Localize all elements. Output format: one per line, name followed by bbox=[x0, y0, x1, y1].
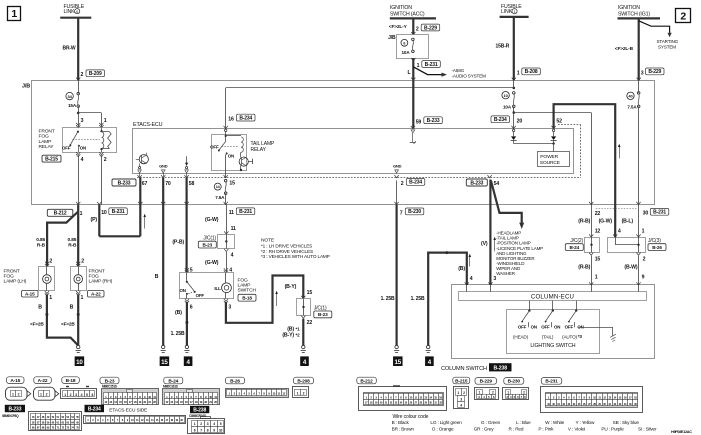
svg-text:R-B: R-B bbox=[37, 242, 46, 248]
svg-text:LINK: LINK bbox=[501, 9, 513, 15]
svg-text:08M60CP8Q: 08M60CP8Q bbox=[2, 414, 19, 418]
svg-text:J/B: J/B bbox=[22, 83, 30, 89]
svg-text:2: 2 bbox=[81, 72, 84, 78]
svg-text:B-209: B-209 bbox=[89, 71, 102, 77]
svg-text:15: 15 bbox=[395, 359, 402, 366]
svg-text:22: 22 bbox=[307, 320, 313, 326]
svg-text:2: 2 bbox=[643, 256, 646, 262]
svg-text:<F>2B: <F>2B bbox=[61, 321, 75, 326]
svg-text:IGNITION: IGNITION bbox=[390, 5, 412, 11]
svg-text:MB0C151S: MB0C151S bbox=[102, 385, 118, 389]
svg-text:ON: ON bbox=[180, 288, 186, 293]
svg-text:POWER: POWER bbox=[540, 154, 558, 160]
svg-text:A-22: A-22 bbox=[91, 291, 101, 296]
svg-text:B-238: B-238 bbox=[494, 366, 508, 372]
svg-text:*1: *1 bbox=[296, 326, 301, 331]
svg-text:20: 20 bbox=[517, 118, 523, 124]
svg-text:(P-B): (P-B) bbox=[172, 240, 184, 246]
svg-text:(V): (V) bbox=[481, 241, 488, 247]
svg-text:15: 15 bbox=[307, 290, 313, 296]
svg-text:B-229: B-229 bbox=[480, 379, 493, 385]
svg-text:PU : Purple: PU : Purple bbox=[601, 427, 624, 432]
svg-text:6: 6 bbox=[403, 41, 405, 45]
svg-text:B-23: B-23 bbox=[203, 242, 213, 247]
svg-text:(AUTO): (AUTO) bbox=[562, 334, 577, 339]
svg-text:FOG: FOG bbox=[39, 134, 49, 140]
svg-text:*3: *3 bbox=[578, 334, 583, 339]
svg-text:54: 54 bbox=[494, 181, 500, 187]
svg-text:1: 1 bbox=[11, 8, 17, 20]
svg-text:LIGHTING SWITCH: LIGHTING SWITCH bbox=[530, 343, 575, 349]
svg-text:2: 2 bbox=[104, 157, 107, 163]
svg-text:*2: *2 bbox=[296, 332, 301, 337]
svg-text:ETACS-ECU SIDE: ETACS-ECU SIDE bbox=[109, 408, 147, 414]
svg-text:LAMP (LH): LAMP (LH) bbox=[4, 279, 27, 285]
svg-text:7.5A: 7.5A bbox=[215, 195, 225, 200]
svg-text:SYSTEM: SYSTEM bbox=[658, 44, 676, 49]
svg-text:A-15: A-15 bbox=[25, 291, 35, 296]
svg-text:(G-W): (G-W) bbox=[599, 218, 613, 224]
svg-text:0.85: 0.85 bbox=[68, 237, 77, 243]
svg-text:LAMP: LAMP bbox=[39, 139, 52, 145]
svg-text:B-231: B-231 bbox=[425, 62, 438, 68]
svg-text:MB0C161S: MB0C161S bbox=[163, 385, 179, 389]
svg-text:B-208: B-208 bbox=[525, 69, 538, 75]
svg-text:10: 10 bbox=[101, 210, 107, 216]
svg-text:J/C(1): J/C(1) bbox=[314, 305, 327, 311]
svg-text:GR : Grey: GR : Grey bbox=[474, 427, 495, 432]
svg-text:OFF: OFF bbox=[518, 324, 527, 329]
svg-text:ON: ON bbox=[531, 324, 537, 329]
svg-text:58: 58 bbox=[189, 181, 195, 187]
svg-text:B-212: B-212 bbox=[54, 211, 67, 217]
svg-text:(B-L): (B-L) bbox=[622, 218, 634, 224]
svg-text:L : Blue: L : Blue bbox=[516, 420, 531, 425]
svg-text:B-233: B-233 bbox=[8, 406, 21, 412]
svg-text:B-26: B-26 bbox=[230, 378, 240, 384]
svg-text:W : White: W : White bbox=[545, 420, 565, 425]
svg-text:OFF: OFF bbox=[62, 145, 71, 150]
svg-text:2: 2 bbox=[81, 258, 84, 264]
svg-text:1: 1 bbox=[81, 295, 84, 301]
svg-text:ON: ON bbox=[80, 146, 86, 151]
svg-text:10: 10 bbox=[76, 359, 83, 366]
svg-text:1: 1 bbox=[104, 118, 107, 124]
svg-text:7: 7 bbox=[400, 210, 403, 216]
svg-text:15: 15 bbox=[229, 181, 235, 187]
svg-text:1: 1 bbox=[49, 295, 52, 301]
svg-text:(B-W): (B-W) bbox=[624, 264, 637, 270]
svg-text:IGNITION: IGNITION bbox=[618, 5, 640, 11]
svg-text:22: 22 bbox=[595, 211, 601, 217]
svg-text:B-23: B-23 bbox=[318, 312, 328, 317]
svg-text:11: 11 bbox=[231, 226, 236, 232]
svg-text:B-231: B-231 bbox=[112, 209, 125, 215]
svg-text:FRONT: FRONT bbox=[89, 268, 105, 274]
svg-text:B : Black: B : Black bbox=[392, 420, 410, 425]
svg-text:15: 15 bbox=[595, 256, 601, 262]
svg-text:RELAY: RELAY bbox=[251, 147, 267, 153]
svg-text:4: 4 bbox=[618, 228, 621, 234]
svg-text:1. 25B: 1. 25B bbox=[171, 331, 185, 337]
svg-text:B-234: B-234 bbox=[88, 406, 101, 412]
svg-text:*1 : LH DRIVE VEHICLES: *1 : LH DRIVE VEHICLES bbox=[261, 244, 312, 249]
svg-text:BR-W: BR-W bbox=[63, 46, 76, 52]
svg-text:B-24: B-24 bbox=[570, 245, 580, 250]
svg-text:ON: ON bbox=[554, 324, 560, 329]
svg-text:59: 59 bbox=[416, 119, 422, 125]
svg-text:O : Orange: O : Orange bbox=[432, 427, 454, 432]
svg-text:3: 3 bbox=[228, 304, 231, 310]
svg-text:*3 : VEHICLES WITH AUTO LAMP: *3 : VEHICLES WITH AUTO LAMP bbox=[261, 254, 330, 259]
svg-text:52: 52 bbox=[556, 118, 562, 124]
svg-text:LG : Light green: LG : Light green bbox=[430, 420, 462, 425]
svg-text:A-15: A-15 bbox=[10, 378, 20, 384]
svg-text:3: 3 bbox=[460, 398, 462, 402]
svg-text:ON: ON bbox=[228, 153, 234, 158]
svg-text:B-231: B-231 bbox=[653, 210, 666, 216]
svg-text:<F>2L-B: <F>2L-B bbox=[615, 46, 634, 52]
svg-text:B-24: B-24 bbox=[168, 378, 178, 384]
svg-text:SWITCH (ACC): SWITCH (ACC) bbox=[390, 11, 425, 17]
svg-text:B-238: B-238 bbox=[193, 407, 206, 413]
svg-text:P : Pink: P : Pink bbox=[538, 427, 554, 432]
svg-text:FRONT: FRONT bbox=[4, 268, 20, 274]
svg-text:2: 2 bbox=[680, 11, 686, 23]
svg-text:3: 3 bbox=[493, 276, 496, 282]
svg-text:10A: 10A bbox=[402, 50, 411, 55]
svg-text:4: 4 bbox=[81, 157, 84, 163]
svg-text:LAMP: LAMP bbox=[238, 283, 251, 289]
svg-text:15B-R: 15B-R bbox=[496, 43, 510, 49]
svg-text:-AUDIO SYSTEM: -AUDIO SYSTEM bbox=[452, 73, 487, 78]
svg-text:B-231: B-231 bbox=[239, 209, 252, 215]
svg-text:6: 6 bbox=[76, 10, 78, 14]
svg-text:LAMP (RH): LAMP (RH) bbox=[89, 279, 113, 285]
svg-text:FRONT: FRONT bbox=[39, 128, 55, 134]
svg-text:(G-W): (G-W) bbox=[205, 217, 219, 223]
svg-text:OFF: OFF bbox=[541, 324, 550, 329]
svg-text:BR : Brown: BR : Brown bbox=[392, 427, 415, 432]
svg-text:B-23: B-23 bbox=[105, 378, 115, 384]
svg-text:1: 1 bbox=[80, 211, 83, 217]
svg-text:(B-Y): (B-Y) bbox=[282, 333, 294, 339]
svg-text:1: 1 bbox=[514, 10, 516, 14]
svg-text:GND: GND bbox=[159, 163, 168, 168]
svg-text:B-233: B-233 bbox=[427, 118, 440, 124]
svg-text:FOG: FOG bbox=[89, 274, 99, 280]
svg-text:0.85: 0.85 bbox=[36, 237, 45, 243]
svg-text:NOTE: NOTE bbox=[261, 237, 275, 243]
svg-text:2: 2 bbox=[401, 181, 404, 187]
svg-text:B-230: B-230 bbox=[508, 379, 521, 385]
svg-text:1: 1 bbox=[642, 228, 645, 234]
svg-text:B: B bbox=[70, 305, 74, 311]
svg-text:FOG: FOG bbox=[238, 277, 248, 283]
svg-text:1. 25B: 1. 25B bbox=[411, 296, 425, 302]
svg-text:B-229: B-229 bbox=[648, 69, 661, 75]
svg-text:B: B bbox=[38, 305, 42, 311]
svg-text:9: 9 bbox=[642, 274, 645, 280]
svg-text:OFF: OFF bbox=[210, 144, 219, 149]
svg-text:(G-W): (G-W) bbox=[205, 260, 219, 266]
svg-text:RELAY: RELAY bbox=[39, 144, 55, 150]
svg-text:10A: 10A bbox=[503, 104, 512, 109]
svg-text:(B): (B) bbox=[175, 310, 182, 316]
svg-text:1: 1 bbox=[417, 63, 420, 69]
svg-text:2: 2 bbox=[49, 258, 52, 264]
svg-text:WASHER: WASHER bbox=[496, 271, 516, 276]
svg-text:GND: GND bbox=[393, 163, 402, 168]
svg-text:B-234: B-234 bbox=[409, 180, 422, 186]
svg-text:B: B bbox=[155, 274, 159, 280]
svg-text:B-212: B-212 bbox=[360, 378, 373, 384]
svg-text:B-215: B-215 bbox=[45, 157, 58, 163]
svg-text:12: 12 bbox=[595, 228, 601, 234]
svg-text:15A: 15A bbox=[68, 103, 77, 108]
svg-text:1: 1 bbox=[595, 274, 598, 280]
svg-text:4: 4 bbox=[460, 404, 462, 408]
svg-text:(B): (B) bbox=[458, 266, 465, 272]
svg-text:J/C(1): J/C(1) bbox=[203, 236, 216, 242]
svg-text:B-215: B-215 bbox=[455, 378, 468, 384]
svg-text:COLUMN-ECU: COLUMN-ECU bbox=[531, 294, 574, 301]
svg-text:4: 4 bbox=[231, 253, 234, 259]
svg-text:OFF: OFF bbox=[196, 293, 205, 298]
svg-text:11: 11 bbox=[229, 210, 234, 216]
svg-text:OFF: OFF bbox=[565, 324, 574, 329]
svg-text:3: 3 bbox=[641, 70, 644, 76]
svg-text:LINK: LINK bbox=[64, 9, 76, 15]
svg-text:(B-Y): (B-Y) bbox=[285, 284, 297, 290]
svg-text:<F>2L-Y: <F>2L-Y bbox=[389, 24, 408, 30]
svg-text:SWITCH (IG1): SWITCH (IG1) bbox=[618, 11, 650, 17]
svg-text:B-26: B-26 bbox=[652, 245, 662, 250]
svg-text:COLUMN SWITCH: COLUMN SWITCH bbox=[441, 366, 487, 372]
svg-text:B-18: B-18 bbox=[242, 296, 252, 301]
svg-text:H9F08E12AC: H9F08E12AC bbox=[671, 430, 692, 434]
svg-text:*2 : RH DRIVE VEHICLES: *2 : RH DRIVE VEHICLES bbox=[261, 249, 313, 254]
svg-text:B-233: B-233 bbox=[118, 180, 131, 186]
svg-text:G : Green: G : Green bbox=[481, 420, 501, 425]
svg-text:7.5A: 7.5A bbox=[627, 104, 637, 109]
svg-text:1: 1 bbox=[517, 70, 520, 76]
svg-text:6: 6 bbox=[190, 304, 193, 310]
svg-text:3: 3 bbox=[81, 118, 84, 124]
svg-text:B-18: B-18 bbox=[66, 378, 76, 384]
svg-text:4: 4 bbox=[470, 276, 473, 282]
svg-text:A-22: A-22 bbox=[38, 378, 48, 384]
svg-text:ETACS-ECU: ETACS-ECU bbox=[133, 122, 163, 128]
svg-text:R-B: R-B bbox=[68, 242, 77, 248]
svg-text:15: 15 bbox=[161, 359, 168, 366]
svg-text:B-234: B-234 bbox=[239, 115, 252, 121]
svg-text:J/B: J/B bbox=[388, 35, 396, 41]
svg-text:ILL: ILL bbox=[214, 286, 221, 291]
svg-text:(P): (P) bbox=[91, 217, 98, 223]
svg-text:ON: ON bbox=[577, 324, 583, 329]
svg-text:<F>2B: <F>2B bbox=[30, 321, 44, 326]
svg-text:R : Red: R : Red bbox=[509, 427, 524, 432]
svg-text:67: 67 bbox=[142, 181, 148, 187]
svg-text:(R-B): (R-B) bbox=[578, 264, 590, 270]
svg-text:Y : Yellow: Y : Yellow bbox=[576, 420, 596, 425]
svg-text:30: 30 bbox=[643, 211, 649, 217]
svg-text:SB : Sky blue: SB : Sky blue bbox=[613, 420, 640, 425]
svg-text:16: 16 bbox=[228, 117, 234, 123]
svg-text:2: 2 bbox=[416, 26, 419, 32]
svg-text:1. 25B: 1. 25B bbox=[381, 296, 395, 302]
svg-text:V : Violet: V : Violet bbox=[568, 427, 586, 432]
svg-text:(HEAD): (HEAD) bbox=[513, 334, 529, 339]
svg-text:B-234: B-234 bbox=[494, 117, 507, 123]
svg-text:70: 70 bbox=[165, 181, 171, 187]
svg-text:B-229: B-229 bbox=[424, 25, 437, 31]
svg-text:B-230: B-230 bbox=[408, 209, 421, 215]
svg-text:B-231: B-231 bbox=[545, 379, 558, 385]
svg-text:SOURCE: SOURCE bbox=[540, 160, 561, 166]
svg-text:B-233: B-233 bbox=[470, 180, 483, 186]
svg-text:SWITCH: SWITCH bbox=[238, 288, 257, 294]
svg-text:(R-B): (R-B) bbox=[578, 218, 590, 224]
svg-text:10: 10 bbox=[219, 429, 223, 433]
svg-text:(TAIL): (TAIL) bbox=[542, 334, 554, 339]
svg-text:B-208: B-208 bbox=[297, 378, 310, 384]
svg-text:SI : Silver: SI : Silver bbox=[638, 427, 657, 432]
svg-text:FOG: FOG bbox=[4, 274, 14, 280]
